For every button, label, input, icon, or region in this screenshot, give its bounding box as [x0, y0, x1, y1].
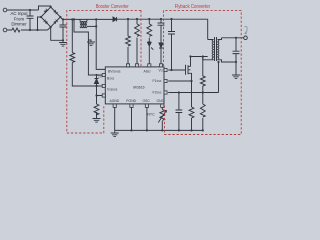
svg-text:iW3616: iW3616: [133, 86, 145, 90]
svg-text:OSC: OSC: [143, 99, 151, 103]
svg-text:Dimmer: Dimmer: [11, 22, 27, 27]
svg-text:Booster Converter: Booster Converter: [96, 4, 129, 10]
svg-text:ASU: ASU: [144, 70, 152, 74]
svg-text:BSNS: BSNS: [107, 76, 115, 80]
svg-text:VCC: VCC: [159, 69, 165, 73]
svg-text:NTC: NTC: [147, 112, 155, 116]
svg-text:Flyback Converter: Flyback Converter: [175, 4, 211, 10]
svg-text:VSENSE: VSENSE: [107, 87, 118, 91]
svg-text:210: 210: [98, 75, 103, 79]
svg-text:AGND: AGND: [110, 99, 120, 103]
svg-text:BVSENSE: BVSENSE: [108, 70, 121, 74]
svg-text:F1SNS: F1SNS: [153, 79, 162, 83]
svg-text:GND: GND: [157, 99, 165, 103]
svg-text:F2SNS: F2SNS: [153, 90, 162, 94]
svg-text:PGND: PGND: [126, 99, 136, 103]
